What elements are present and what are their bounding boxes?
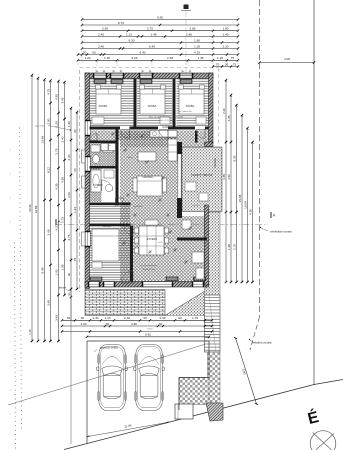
svg-text:2.75: 2.75	[67, 234, 71, 240]
svg-text:4.35: 4.35	[227, 115, 231, 121]
svg-text:1.13: 1.13	[126, 32, 132, 36]
svg-text:2.40: 2.40	[98, 32, 104, 36]
svg-text:FEDETT TERASZ: FEDETT TERASZ	[192, 173, 213, 177]
svg-text:1.30: 1.30	[67, 121, 71, 127]
svg-text:SZOBA: SZOBA	[99, 104, 108, 108]
svg-text:75: 75	[233, 62, 237, 66]
svg-text:2.20: 2.20	[222, 108, 226, 114]
svg-text:sz. mozaik parketta: sz. mozaik parketta	[140, 264, 158, 267]
svg-text:3.48: 3.48	[46, 300, 50, 306]
svg-text:NAPPALI: NAPPALI	[143, 175, 154, 179]
svg-text:1.75: 1.75	[192, 316, 198, 320]
svg-text:1.48: 1.48	[150, 32, 156, 36]
svg-text:13.95: 13.95	[40, 136, 44, 144]
svg-text:3.45: 3.45	[60, 97, 64, 103]
svg-text:telekhatár vonala: telekhatár vonala	[270, 230, 292, 234]
svg-text:TERASZ: TERASZ	[214, 158, 217, 168]
svg-text:4.10: 4.10	[194, 50, 200, 54]
svg-text:burkolat 8 mm: burkolat 8 mm	[143, 268, 156, 271]
svg-text:4.75: 4.75	[46, 88, 50, 94]
svg-text:alap széle: alap széle	[35, 126, 45, 128]
svg-text:4.80: 4.80	[131, 322, 137, 326]
svg-text:2.30: 2.30	[167, 56, 173, 60]
svg-text:1.80: 1.80	[222, 27, 228, 31]
svg-text:3.49: 3.49	[46, 229, 50, 235]
svg-text:1.35: 1.35	[197, 56, 203, 60]
svg-text:2.40: 2.40	[67, 154, 71, 160]
svg-text:1.20: 1.20	[222, 44, 228, 48]
svg-text:4.20: 4.20	[54, 224, 58, 230]
svg-text:2.30: 2.30	[159, 316, 165, 320]
svg-text:1.35: 1.35	[28, 329, 32, 335]
svg-text:padlófűtés: padlófűtés	[133, 205, 142, 208]
svg-text:5.25: 5.25	[233, 155, 237, 161]
svg-text:1.35: 1.35	[194, 44, 200, 48]
svg-text:8.73: 8.73	[118, 21, 124, 25]
svg-text:térkő: térkő	[148, 328, 154, 331]
svg-text:sétálóút vonala: sétálóút vonala	[253, 341, 272, 345]
svg-text:9.62: 9.62	[145, 333, 151, 337]
svg-text:4.35: 4.35	[60, 177, 64, 183]
svg-text:2.90: 2.90	[102, 27, 108, 31]
svg-text:75: 75	[216, 62, 220, 66]
svg-text:16.88: 16.88	[34, 205, 38, 213]
svg-text:SZOBA: SZOBA	[186, 104, 195, 108]
svg-text:előtér: előtér	[127, 156, 132, 159]
svg-text:+0.15: +0.15	[157, 242, 163, 244]
svg-text:2.30: 2.30	[124, 316, 130, 320]
svg-text:90: 90	[81, 316, 85, 320]
svg-text:A: A	[273, 213, 276, 218]
svg-text:6.30: 6.30	[128, 38, 134, 42]
svg-text:20.30: 20.30	[28, 204, 32, 212]
svg-text:2.90: 2.90	[46, 118, 50, 124]
svg-text:35: 35	[67, 316, 71, 320]
svg-text:2.86: 2.86	[189, 27, 195, 31]
svg-text:2.26: 2.26	[131, 56, 137, 60]
svg-text:gépkocsi beálló: gépkocsi beálló	[100, 346, 118, 350]
svg-text:8.22: 8.22	[46, 167, 50, 173]
svg-text:4.50: 4.50	[227, 174, 231, 180]
svg-text:90: 90	[178, 316, 182, 320]
svg-text:30: 30	[225, 62, 229, 66]
svg-text:4.30: 4.30	[249, 209, 253, 215]
svg-text:szél: +2.70-2.86: szél: +2.70-2.86	[159, 120, 174, 122]
svg-text:2.75: 2.75	[54, 148, 58, 154]
svg-text:3.49: 3.49	[54, 315, 58, 321]
svg-text:1.43: 1.43	[73, 207, 77, 213]
svg-text:2.40: 2.40	[60, 136, 64, 142]
svg-text:4.35: 4.35	[222, 174, 226, 180]
svg-text:vizorána: vizorána	[192, 205, 200, 207]
svg-text:1.20: 1.20	[84, 56, 90, 60]
svg-text:3.60: 3.60	[80, 322, 86, 326]
svg-text:em. födém alja: em. födém alja	[178, 111, 192, 113]
svg-text:1.80: 1.80	[194, 38, 200, 42]
svg-text:90: 90	[67, 273, 71, 277]
svg-text:90: 90	[73, 129, 77, 133]
svg-text:kerítés: kerítés	[59, 287, 67, 290]
svg-text:4.00: 4.00	[284, 57, 290, 61]
svg-text:20: 20	[73, 168, 77, 172]
svg-text:4.35: 4.35	[54, 183, 58, 189]
svg-text:6.40: 6.40	[149, 44, 155, 48]
svg-text:mon. vb. gerenda alatta szerel: mon. vb. gerenda alatta szerelt alátét	[149, 116, 184, 119]
svg-text:30: 30	[83, 50, 87, 54]
svg-text:4.35: 4.35	[54, 94, 58, 100]
svg-text:5.48: 5.48	[40, 267, 44, 273]
svg-text:2.86: 2.86	[186, 32, 192, 36]
svg-text:1.43: 1.43	[54, 269, 58, 275]
svg-text:2.75: 2.75	[60, 217, 64, 223]
svg-text:KONYHA: KONYHA	[163, 125, 174, 129]
svg-text:4.20: 4.20	[67, 192, 71, 198]
svg-text:75: 75	[231, 56, 235, 60]
svg-text:30: 30	[159, 322, 163, 326]
svg-text:1.40: 1.40	[92, 316, 98, 320]
svg-text:6.40: 6.40	[139, 50, 145, 54]
svg-text:1.13: 1.13	[104, 316, 110, 320]
svg-text:2.40: 2.40	[98, 44, 104, 48]
svg-text:90: 90	[143, 316, 147, 320]
svg-text:SZOBA: SZOBA	[103, 224, 112, 228]
svg-text:1.35: 1.35	[60, 264, 64, 270]
svg-text:9.90: 9.90	[157, 15, 163, 19]
svg-text:75: 75	[73, 258, 77, 262]
svg-text:1.35: 1.35	[54, 121, 58, 127]
svg-text:1.30: 1.30	[104, 56, 110, 60]
svg-text:2.75: 2.75	[147, 27, 153, 31]
svg-text:16.08: 16.08	[244, 201, 248, 209]
svg-text:1.40: 1.40	[222, 32, 228, 36]
svg-text:SZOBA: SZOBA	[148, 104, 157, 108]
svg-text:15.65: 15.65	[238, 194, 242, 202]
svg-text:90: 90	[92, 50, 96, 54]
svg-text:1.98: 1.98	[227, 244, 231, 250]
svg-text:30: 30	[106, 322, 110, 326]
svg-text:2.75: 2.75	[233, 244, 237, 250]
svg-text:1.20: 1.20	[217, 56, 223, 60]
